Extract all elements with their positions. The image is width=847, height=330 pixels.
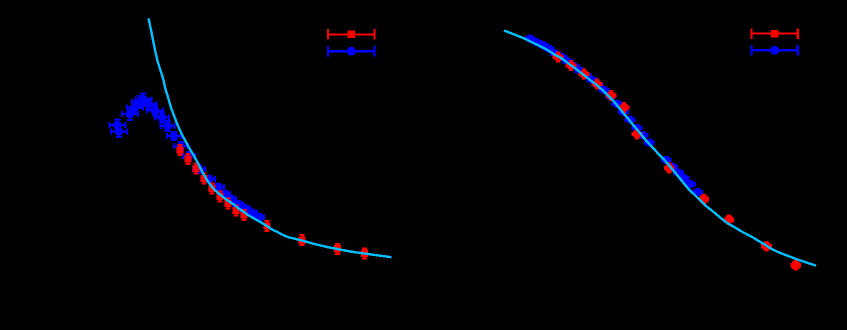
left legend blue entry <box>328 46 374 56</box>
right legend red entry <box>751 28 797 38</box>
left panel red data series <box>176 145 368 258</box>
right panel fit curve <box>504 31 816 266</box>
right panel blue data series <box>526 34 703 196</box>
right panel red data series <box>554 53 801 270</box>
right legend blue entry <box>751 45 797 55</box>
left panel fit curve <box>149 18 392 257</box>
left legend red entry <box>328 29 374 39</box>
left panel blue data series <box>109 94 264 222</box>
